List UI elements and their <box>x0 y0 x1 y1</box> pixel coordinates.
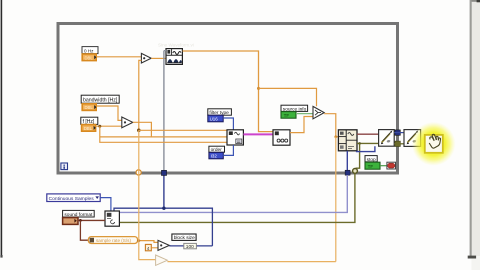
control amplitude DBL terminal <box>82 54 96 61</box>
control source info TF terminal <box>281 112 296 119</box>
wire task id below loop (lavender) <box>119 175 347 212</box>
control bandwidth DBL terminal <box>82 104 96 111</box>
control amplitude label <box>82 47 98 54</box>
control sample rate (dimmed) <box>88 237 137 244</box>
wire bottom out to playback vertical <box>167 261 335 263</box>
wire add out to filter design <box>133 122 152 137</box>
node junction on sine wire <box>257 87 260 90</box>
control sound format cluster terminal <box>63 218 78 225</box>
svg-text:DBL: DBL <box>84 126 93 131</box>
wire sine branch to select <box>259 88 317 106</box>
wire task id node to tunnel (blue) <box>346 151 348 172</box>
wire divide out to line A <box>169 245 212 247</box>
control bandwidth [Hz] label <box>81 95 119 103</box>
svg-text:block size: block size <box>174 235 195 241</box>
svg-text:TF: TF <box>368 164 374 169</box>
wire order up into design node <box>223 145 233 155</box>
node junction big on vertical <box>137 129 141 133</box>
window left edge <box>0 0 2 258</box>
wire source info to select <box>296 113 313 115</box>
divide node <box>158 240 169 250</box>
svg-text:Sine Waveform.vi: Sine Waveform.vi <box>158 42 194 47</box>
sound output configure node <box>105 211 119 226</box>
control stop TF terminal <box>365 162 380 169</box>
control f DBL terminal <box>82 125 96 132</box>
svg-text:0 Hz: 0 Hz <box>84 48 94 53</box>
control filter type enum terminal <box>208 115 223 122</box>
wire error to out VI <box>394 143 404 145</box>
tunnel blue on right border <box>395 130 400 135</box>
wire multiply out to sine vi <box>151 57 165 59</box>
express VI graph (inside loop) <box>379 130 395 147</box>
wire playback up (orange long vertical) <box>335 137 337 262</box>
constant 100 <box>184 243 197 250</box>
wire sample info vertical (gray-blue, into loop) <box>164 51 166 209</box>
wire 4 to divide <box>151 247 158 249</box>
wire error olive to graph <box>357 142 378 144</box>
wire filter out up to select <box>290 117 313 133</box>
iteration terminal i <box>61 163 68 170</box>
while loop border <box>58 24 398 174</box>
svg-text:bandwidth [Hz]: bandwidth [Hz] <box>83 98 118 104</box>
wire dot to filter design <box>139 129 227 131</box>
control source info label <box>281 105 308 112</box>
svg-text:sample rate (S/s): sample rate (S/s) <box>96 238 131 243</box>
Sine Waveform VI icon <box>166 49 182 65</box>
filter design node <box>227 130 243 145</box>
faint multiply node bottom <box>156 255 168 265</box>
svg-text:DBL: DBL <box>85 55 94 60</box>
node junction error branch <box>358 142 361 145</box>
svg-text:DBL: DBL <box>85 105 94 110</box>
wire amplitude to multiply <box>97 56 142 58</box>
control order I32 terminal <box>209 152 223 158</box>
wire branch down to sample rate <box>80 220 88 240</box>
wire sample rate to divide <box>138 241 158 243</box>
wire f branch mid <box>100 136 227 138</box>
wire sound format to configure <box>78 219 105 221</box>
wire select out to sound write <box>324 114 338 137</box>
multiply node (top) <box>141 53 151 63</box>
svg-text:TF: TF <box>284 113 290 118</box>
filter node <box>273 130 290 145</box>
wire filter type down into design node <box>223 118 233 130</box>
node junction on f wire <box>98 125 101 128</box>
wire f vertical to multiply lower input <box>139 60 142 130</box>
sound output write node <box>338 130 357 151</box>
wire f branch down <box>100 126 227 142</box>
label block size <box>172 234 196 241</box>
wire f to add node <box>96 125 122 127</box>
svg-text:U16: U16 <box>210 117 219 122</box>
node junction at write input <box>334 135 337 138</box>
control order label <box>209 146 225 153</box>
wire sine out (orange) long top <box>183 51 273 132</box>
select node <box>313 106 324 118</box>
wire write to graph (maroon) <box>357 133 378 135</box>
node junction crossing <box>137 239 140 242</box>
control sound format label <box>63 210 95 217</box>
wire filter design to filter (magenta) <box>243 133 273 135</box>
wire bandwidth to add <box>97 106 122 120</box>
wire f vertical lower part to small multiply <box>139 130 156 259</box>
ghost label Sine Waveform.vi <box>158 42 194 47</box>
wire error branch down to tunnel <box>356 143 360 168</box>
tunnel navy square left <box>161 170 166 175</box>
tunnel orange ring on bottom border <box>136 170 141 175</box>
wire graph to out VI <box>394 132 404 134</box>
express VI sound out (outside loop) <box>404 130 421 147</box>
svg-text:Continuous Samples: Continuous Samples <box>49 196 95 202</box>
svg-text:I32: I32 <box>211 154 218 159</box>
yellow cursor highlight <box>412 122 456 166</box>
wire stop to conditional <box>380 165 387 167</box>
control filter type label <box>208 109 232 116</box>
constant 4 box <box>145 244 151 250</box>
control stop label <box>365 156 377 163</box>
tunnel olive on right border <box>395 141 400 146</box>
tunnel olive ring <box>353 169 358 174</box>
node junction sound format <box>79 219 82 222</box>
scrollbar track right <box>468 0 480 270</box>
node junction on line A <box>162 207 165 210</box>
add node <box>122 117 133 128</box>
enum Continuous Samples <box>47 194 100 202</box>
wire error below loop (olive) <box>119 173 355 222</box>
svg-text:100: 100 <box>186 244 194 250</box>
wire block size line A (navy) <box>114 208 212 246</box>
wire task id from graph down (navy) <box>357 146 375 151</box>
wire enum to configure <box>100 198 111 211</box>
control f [Hz] label <box>81 117 98 125</box>
conditional terminal (stop sign) <box>387 162 396 169</box>
tunnel navy square right <box>345 170 350 175</box>
